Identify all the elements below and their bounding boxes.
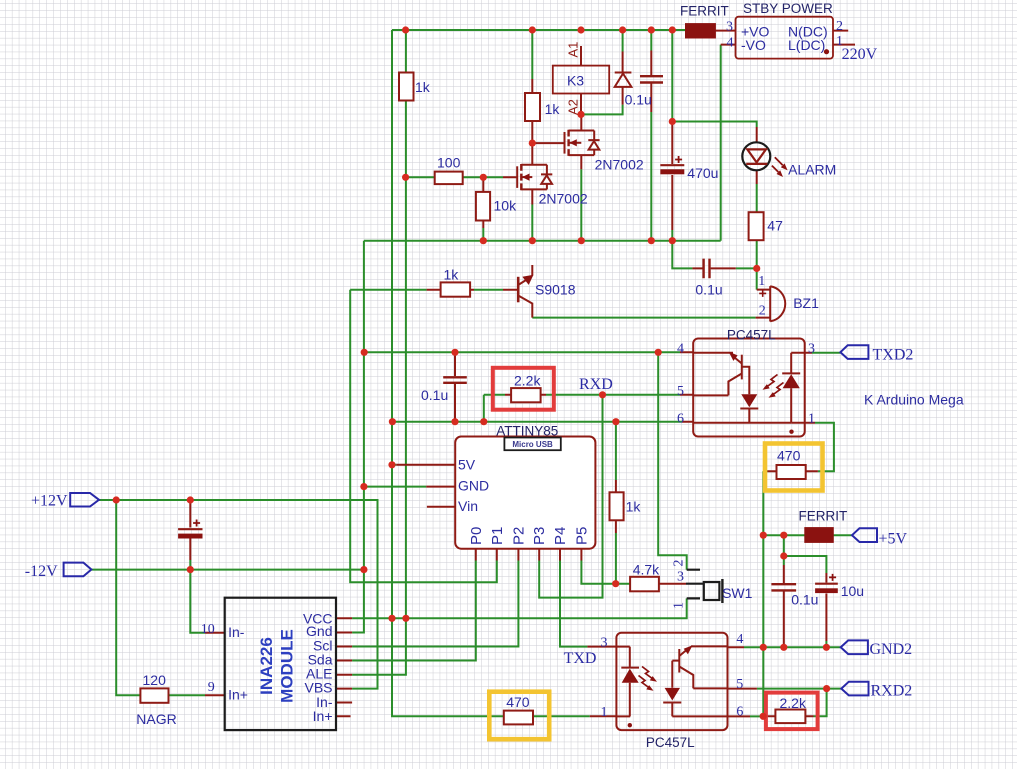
svg-text:TXD2: TXD2 [873, 347, 914, 364]
svg-text:5: 5 [736, 677, 743, 692]
svg-text:6: 6 [677, 411, 684, 426]
svg-text:P1: P1 [489, 527, 506, 545]
svg-text:INA226: INA226 [257, 637, 276, 695]
svg-text:1: 1 [808, 411, 815, 426]
svg-text:P5: P5 [573, 527, 590, 545]
svg-text:0.1u: 0.1u [625, 92, 652, 108]
svg-text:ATTINY85: ATTINY85 [496, 424, 558, 439]
svg-text:STBY POWER: STBY POWER [743, 1, 833, 16]
svg-text:TXD: TXD [564, 650, 597, 667]
svg-text:2: 2 [836, 19, 843, 34]
svg-text:PC457L: PC457L [727, 328, 776, 343]
svg-text:2.2k: 2.2k [514, 373, 541, 389]
svg-text:10u: 10u [841, 583, 864, 599]
svg-text:A1: A1 [566, 42, 581, 58]
svg-text:2: 2 [759, 304, 766, 319]
svg-text:2: 2 [671, 560, 686, 567]
svg-text:GND2: GND2 [870, 641, 913, 658]
svg-text:ALARM: ALARM [788, 162, 836, 178]
svg-text:4: 4 [736, 632, 743, 647]
svg-text:47: 47 [767, 218, 783, 234]
svg-text:-VO: -VO [741, 37, 766, 53]
svg-text:In+: In+ [313, 708, 333, 724]
svg-text:6: 6 [736, 704, 743, 719]
svg-text:3: 3 [808, 341, 815, 356]
svg-text:1: 1 [758, 274, 765, 289]
svg-text:5: 5 [677, 384, 684, 399]
svg-text:L(DC): L(DC) [788, 37, 825, 53]
svg-text:NAGR: NAGR [136, 711, 176, 727]
svg-text:FERRIT: FERRIT [799, 509, 848, 524]
svg-text:0.1u: 0.1u [791, 591, 818, 607]
svg-text:3: 3 [677, 570, 684, 585]
svg-text:470u: 470u [687, 165, 718, 181]
svg-text:10: 10 [201, 622, 215, 637]
svg-text:+12V: +12V [31, 493, 68, 510]
svg-text:P0: P0 [468, 527, 485, 545]
svg-text:0.1u: 0.1u [421, 387, 448, 403]
svg-text:470: 470 [506, 694, 530, 710]
svg-text:K Arduino Mega: K Arduino Mega [864, 392, 964, 408]
svg-text:9: 9 [208, 680, 215, 695]
svg-text:220V: 220V [842, 46, 878, 63]
svg-text:1: 1 [601, 705, 608, 720]
svg-text:P3: P3 [531, 527, 548, 545]
svg-text:S9018: S9018 [535, 282, 576, 298]
svg-text:P2: P2 [510, 527, 527, 545]
svg-text:2N7002: 2N7002 [595, 156, 644, 172]
svg-text:1: 1 [836, 34, 843, 49]
svg-text:Vin: Vin [458, 498, 478, 514]
svg-text:5V: 5V [458, 456, 476, 472]
svg-text:FERRIT: FERRIT [680, 4, 729, 19]
svg-text:0.1u: 0.1u [695, 282, 722, 298]
svg-text:K3: K3 [567, 73, 584, 89]
svg-text:1k: 1k [444, 267, 460, 283]
svg-text:120: 120 [143, 672, 167, 688]
svg-text:2N7002: 2N7002 [539, 191, 588, 207]
svg-text:4: 4 [727, 35, 734, 50]
svg-text:BZ1: BZ1 [793, 295, 819, 311]
svg-text:470: 470 [777, 447, 801, 463]
svg-text:-12V: -12V [25, 563, 58, 580]
svg-text:MODULE: MODULE [278, 629, 297, 703]
svg-text:Micro USB: Micro USB [512, 440, 553, 449]
svg-text:10k: 10k [494, 198, 518, 214]
svg-text:1: 1 [671, 602, 686, 609]
svg-text:100: 100 [437, 155, 461, 171]
svg-text:In-: In- [228, 624, 245, 640]
svg-text:1k: 1k [545, 101, 561, 117]
svg-text:A2: A2 [566, 99, 581, 115]
svg-text:PC457L: PC457L [646, 735, 695, 750]
svg-text:2.2k: 2.2k [780, 695, 807, 711]
svg-text:GND: GND [458, 478, 489, 494]
svg-text:+5V: +5V [879, 531, 908, 548]
svg-text:1k: 1k [415, 79, 431, 95]
svg-text:3: 3 [726, 20, 733, 35]
svg-text:P4: P4 [552, 527, 569, 545]
svg-text:RXD: RXD [579, 376, 613, 393]
svg-text:RXD2: RXD2 [871, 682, 913, 699]
svg-text:3: 3 [601, 635, 608, 650]
svg-text:4: 4 [677, 341, 684, 356]
svg-text:In+: In+ [228, 687, 248, 703]
svg-text:SW1: SW1 [722, 585, 753, 601]
svg-text:1k: 1k [626, 498, 642, 514]
svg-text:4.7k: 4.7k [633, 561, 660, 577]
